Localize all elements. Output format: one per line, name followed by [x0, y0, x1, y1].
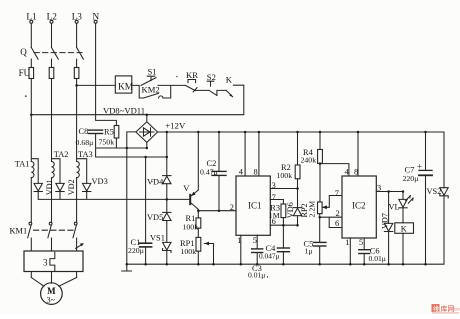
svg-text:1: 1: [345, 238, 349, 247]
svg-text:L3: L3: [72, 12, 83, 22]
svg-text:C8: C8: [79, 127, 89, 136]
svg-text:N: N: [92, 12, 99, 22]
svg-text:240k: 240k: [301, 156, 317, 165]
svg-text:K: K: [226, 75, 233, 85]
svg-text:TA3: TA3: [78, 150, 93, 159]
svg-text:7: 7: [335, 189, 339, 198]
svg-text:VD4: VD4: [147, 177, 164, 186]
svg-text:100k: 100k: [181, 247, 197, 256]
svg-text:KM: KM: [118, 82, 134, 92]
svg-text:,: ,: [267, 270, 269, 279]
svg-text:VD3: VD3: [92, 177, 108, 186]
svg-text:0.47μ: 0.47μ: [200, 167, 218, 176]
svg-text:VD2: VD2: [67, 179, 76, 195]
svg-text:VS2: VS2: [427, 187, 442, 196]
svg-text:KM1: KM1: [10, 227, 28, 236]
svg-text:0.68μ: 0.68μ: [76, 138, 94, 147]
svg-text:L1: L1: [26, 12, 37, 22]
svg-text:220μ: 220μ: [403, 174, 419, 183]
svg-text:3: 3: [377, 184, 381, 193]
svg-text:R5: R5: [104, 127, 114, 136]
svg-text:VD8~VD11: VD8~VD11: [103, 106, 145, 116]
svg-text:1: 1: [237, 236, 241, 245]
svg-text:8: 8: [254, 168, 258, 177]
svg-text:TA2: TA2: [54, 150, 69, 159]
svg-text:VD1: VD1: [45, 179, 54, 195]
svg-text:3: 3: [43, 257, 48, 267]
svg-text:1μ: 1μ: [305, 247, 313, 256]
svg-text:100k: 100k: [183, 222, 199, 231]
svg-text:750k: 750k: [99, 138, 115, 147]
svg-text:KM2: KM2: [142, 85, 160, 95]
svg-text:VS1: VS1: [150, 234, 165, 243]
svg-text:+12V: +12V: [165, 121, 186, 131]
svg-text:7: 7: [272, 193, 276, 202]
svg-text:2.2M: 2.2M: [308, 201, 317, 218]
svg-text:5: 5: [359, 238, 363, 247]
svg-text:S2: S2: [207, 72, 216, 82]
svg-text:TA1: TA1: [15, 160, 30, 169]
svg-text:1M: 1M: [269, 211, 280, 220]
svg-text:L2: L2: [47, 12, 58, 22]
svg-text:3~: 3~: [47, 295, 56, 304]
svg-text:VL: VL: [389, 203, 400, 212]
svg-text:IC1: IC1: [248, 200, 262, 210]
svg-text:+: +: [417, 162, 422, 172]
svg-text:FU: FU: [19, 68, 31, 78]
svg-text:0.01μ: 0.01μ: [248, 271, 265, 280]
svg-text:KR: KR: [186, 70, 198, 80]
svg-text:0.047μ: 0.047μ: [259, 251, 280, 260]
svg-text:K: K: [401, 225, 407, 234]
svg-text:IC2: IC2: [352, 200, 366, 210]
svg-text:2: 2: [336, 209, 340, 218]
svg-text:8: 8: [354, 168, 358, 177]
svg-text:0.01μ: 0.01μ: [369, 254, 386, 263]
svg-text:220μ: 220μ: [128, 246, 144, 255]
svg-text:S1: S1: [148, 67, 157, 77]
svg-text:V: V: [183, 183, 190, 193]
svg-text:100k: 100k: [277, 171, 293, 180]
svg-text:3: 3: [272, 181, 276, 190]
svg-text:5: 5: [253, 236, 257, 245]
svg-text:dzsc: dzsc: [453, 307, 460, 312]
svg-text:维: 维: [433, 304, 440, 313]
svg-text:Q: Q: [20, 47, 27, 57]
svg-text:2: 2: [230, 203, 234, 212]
svg-text:6: 6: [335, 219, 339, 228]
svg-text:VD7: VD7: [380, 213, 389, 229]
svg-text:VD5: VD5: [147, 213, 163, 222]
svg-text:VD6: VD6: [286, 202, 295, 218]
